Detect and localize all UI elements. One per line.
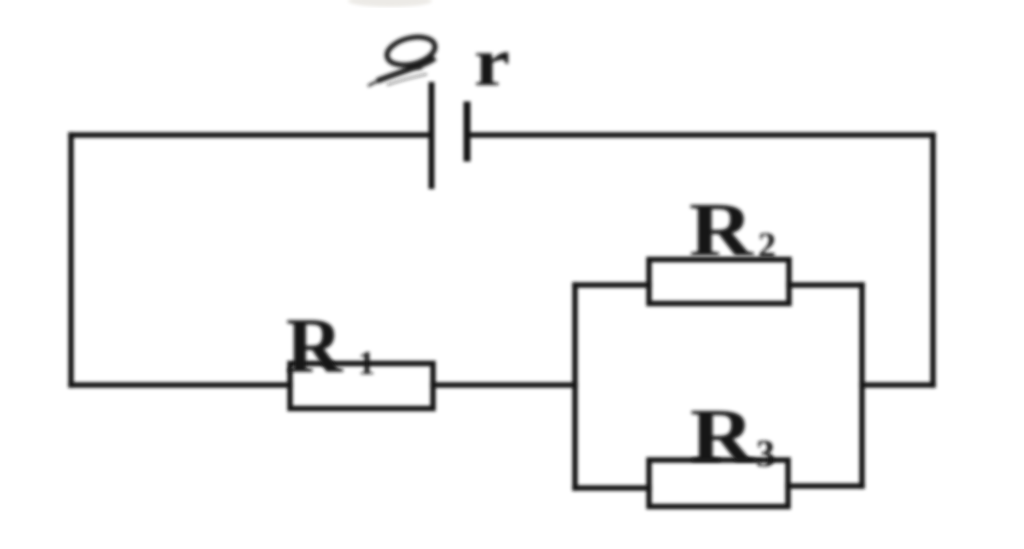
battery short plate (negative) — [464, 105, 471, 158]
svg-text:r: r — [474, 24, 510, 100]
node A left bus vertical — [572, 285, 578, 488]
wire top branch right (R2 to right bus) — [789, 282, 862, 288]
svg-text:3: 3 — [756, 433, 775, 475]
svg-text:R: R — [690, 394, 755, 478]
resistor R3 body — [649, 460, 788, 507]
wire bottom branch left (bus to R3) — [575, 485, 649, 491]
wire node B to right outer — [862, 382, 933, 388]
label r — [474, 24, 510, 100]
resistor R2 body — [649, 260, 789, 304]
label R2 — [689, 188, 776, 272]
label EMF script E — [368, 32, 438, 86]
wire right outer vertical — [930, 135, 936, 385]
wire bottom-left (left corner to R1) — [71, 382, 290, 388]
label R1 — [286, 302, 375, 389]
resistor R1 body — [290, 364, 433, 409]
wire top-left (battery to left corner) — [71, 132, 431, 138]
node B right bus vertical — [859, 285, 865, 486]
svg-text:1: 1 — [358, 345, 375, 382]
svg-text:R: R — [286, 302, 344, 389]
svg-text:2: 2 — [758, 225, 776, 265]
wire top-right (battery to right corner) — [467, 132, 933, 138]
battery long plate (positive) — [429, 85, 435, 186]
faint smudge artifact top — [348, 0, 432, 7]
svg-text:R: R — [689, 188, 754, 272]
wire left vertical — [68, 135, 74, 385]
label R3 — [690, 394, 775, 478]
wire bottom branch right (R3 to right bus) — [788, 483, 862, 489]
wire top branch left (bus to R2) — [575, 282, 649, 288]
wire R1 to node A (left bus) — [433, 382, 575, 388]
